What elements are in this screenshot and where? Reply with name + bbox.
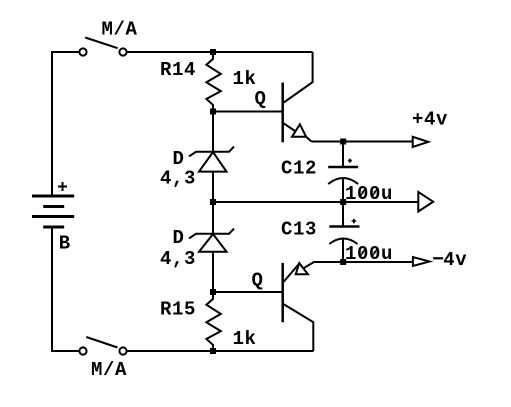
svg-text:4,3: 4,3 — [160, 248, 196, 270]
wire C13 bottom lead — [342, 239, 344, 263]
svg-text:B: B — [59, 233, 71, 255]
zener diode D2 bottom lead — [212, 252, 214, 292]
svg-text:1k: 1k — [233, 68, 257, 90]
junction +4v rail C12 — [340, 139, 346, 145]
transistor Q1 emitter exit lead — [306, 137, 311, 142]
label C12 value slashed zeros — [360, 189, 377, 197]
zener diode D1 bottom lead — [212, 172, 214, 202]
battery B plate 3 long — [32, 215, 74, 218]
label net -4v minus dash — [433, 257, 443, 259]
transistor Q1 emitter lead from bar — [283, 123, 295, 131]
svg-text:Q: Q — [255, 88, 267, 110]
svg-text:+4v: +4v — [412, 109, 448, 131]
capacitor C12 plus sign — [348, 159, 352, 163]
capacitor C13 curved plate — [329, 239, 357, 245]
wire C13 top lead — [342, 202, 344, 226]
capacitor C13 straight plate — [329, 225, 359, 228]
junction D2 R15 Q2-base — [210, 289, 216, 295]
label C13 value slashed zeros — [360, 249, 377, 257]
capacitor C13 plus sign — [352, 219, 357, 224]
wire Q2 base — [213, 291, 283, 293]
battery B plate 4 short — [43, 226, 64, 229]
svg-text:100u: 100u — [345, 243, 393, 265]
transistor Q2 collector lead to bottom rail — [283, 304, 314, 351]
svg-text:C13: C13 — [281, 219, 317, 241]
junction R14 D1 Q1-base — [210, 109, 216, 115]
battery B plate 1 long positive — [32, 195, 74, 198]
wire Q2 emitter to -4v arrow — [314, 261, 413, 263]
switch SW1 throw contact circle — [119, 48, 126, 55]
wire Q1 emitter to +4v arrow — [312, 141, 413, 143]
zener diode D2 cathode bar with zener tails — [189, 229, 234, 239]
junction bottom rail R15 — [210, 348, 216, 354]
resistor R14 — [206, 52, 220, 112]
transistor Q2 emitter exit lead — [303, 262, 314, 269]
svg-text:R15: R15 — [160, 299, 196, 321]
zener diode D2 top lead — [212, 202, 214, 234]
wire C12 bottom lead — [342, 178, 344, 202]
wire mid rail — [213, 201, 418, 203]
wire top rail — [127, 51, 313, 53]
switch SW1 lever — [85, 38, 118, 49]
transistor Q1 base bar — [281, 83, 284, 143]
svg-text:M/A: M/A — [102, 19, 138, 41]
switch SW2 throw contact circle — [119, 347, 126, 354]
svg-text:4,3: 4,3 — [160, 168, 196, 190]
wire C12 top lead — [342, 142, 344, 167]
switch SW2 pole contact circle — [79, 347, 86, 354]
zener diode D2 triangle — [199, 234, 227, 252]
junction -4v rail C13 — [340, 259, 346, 265]
svg-text:M/A: M/A — [91, 359, 127, 381]
svg-text:100u: 100u — [345, 183, 393, 205]
output arrow 0v mid — [418, 192, 433, 212]
battery B plate 2 short — [43, 205, 64, 208]
svg-text:C12: C12 — [281, 158, 317, 180]
svg-text:R14: R14 — [160, 59, 196, 81]
capacitor C12 straight plate — [328, 166, 358, 169]
svg-text:Q: Q — [252, 270, 264, 292]
capacitor C12 curved plate — [328, 178, 358, 184]
output arrow -4v — [413, 257, 430, 266]
transistor Q2 emitter lead from bar — [284, 264, 300, 283]
junction top rail R14 — [210, 49, 216, 55]
resistor R15 — [206, 292, 220, 351]
zener diode D1 triangle — [199, 152, 227, 172]
transistor Q1 collector lead from top rail — [284, 52, 313, 103]
zener diode D1 cathode bar with zener tails — [189, 147, 234, 157]
transistor Q1 emitter arrow triangle — [292, 124, 306, 137]
wire bottom rail right — [127, 350, 313, 352]
junction mid rail C12 C13 — [340, 199, 346, 205]
zener diode D1 anode lead — [212, 112, 214, 153]
wire battery plus to switch SW1 — [52, 52, 79, 196]
transistor Q2 emitter arrow triangle — [296, 263, 308, 274]
wire Q1 base — [213, 111, 283, 113]
junction mid rail D1 D2 — [210, 199, 216, 205]
output arrow +4v — [413, 137, 429, 147]
transistor Q2 base bar — [281, 263, 284, 322]
switch SW2 lever — [86, 337, 117, 348]
svg-text:D: D — [173, 227, 185, 249]
switch SW1 pole contact circle — [79, 48, 86, 55]
battery B plus sign — [58, 182, 67, 191]
svg-text:4v: 4v — [443, 249, 467, 271]
wire bottom rail left — [52, 227, 79, 351]
svg-text:1k: 1k — [233, 328, 257, 350]
